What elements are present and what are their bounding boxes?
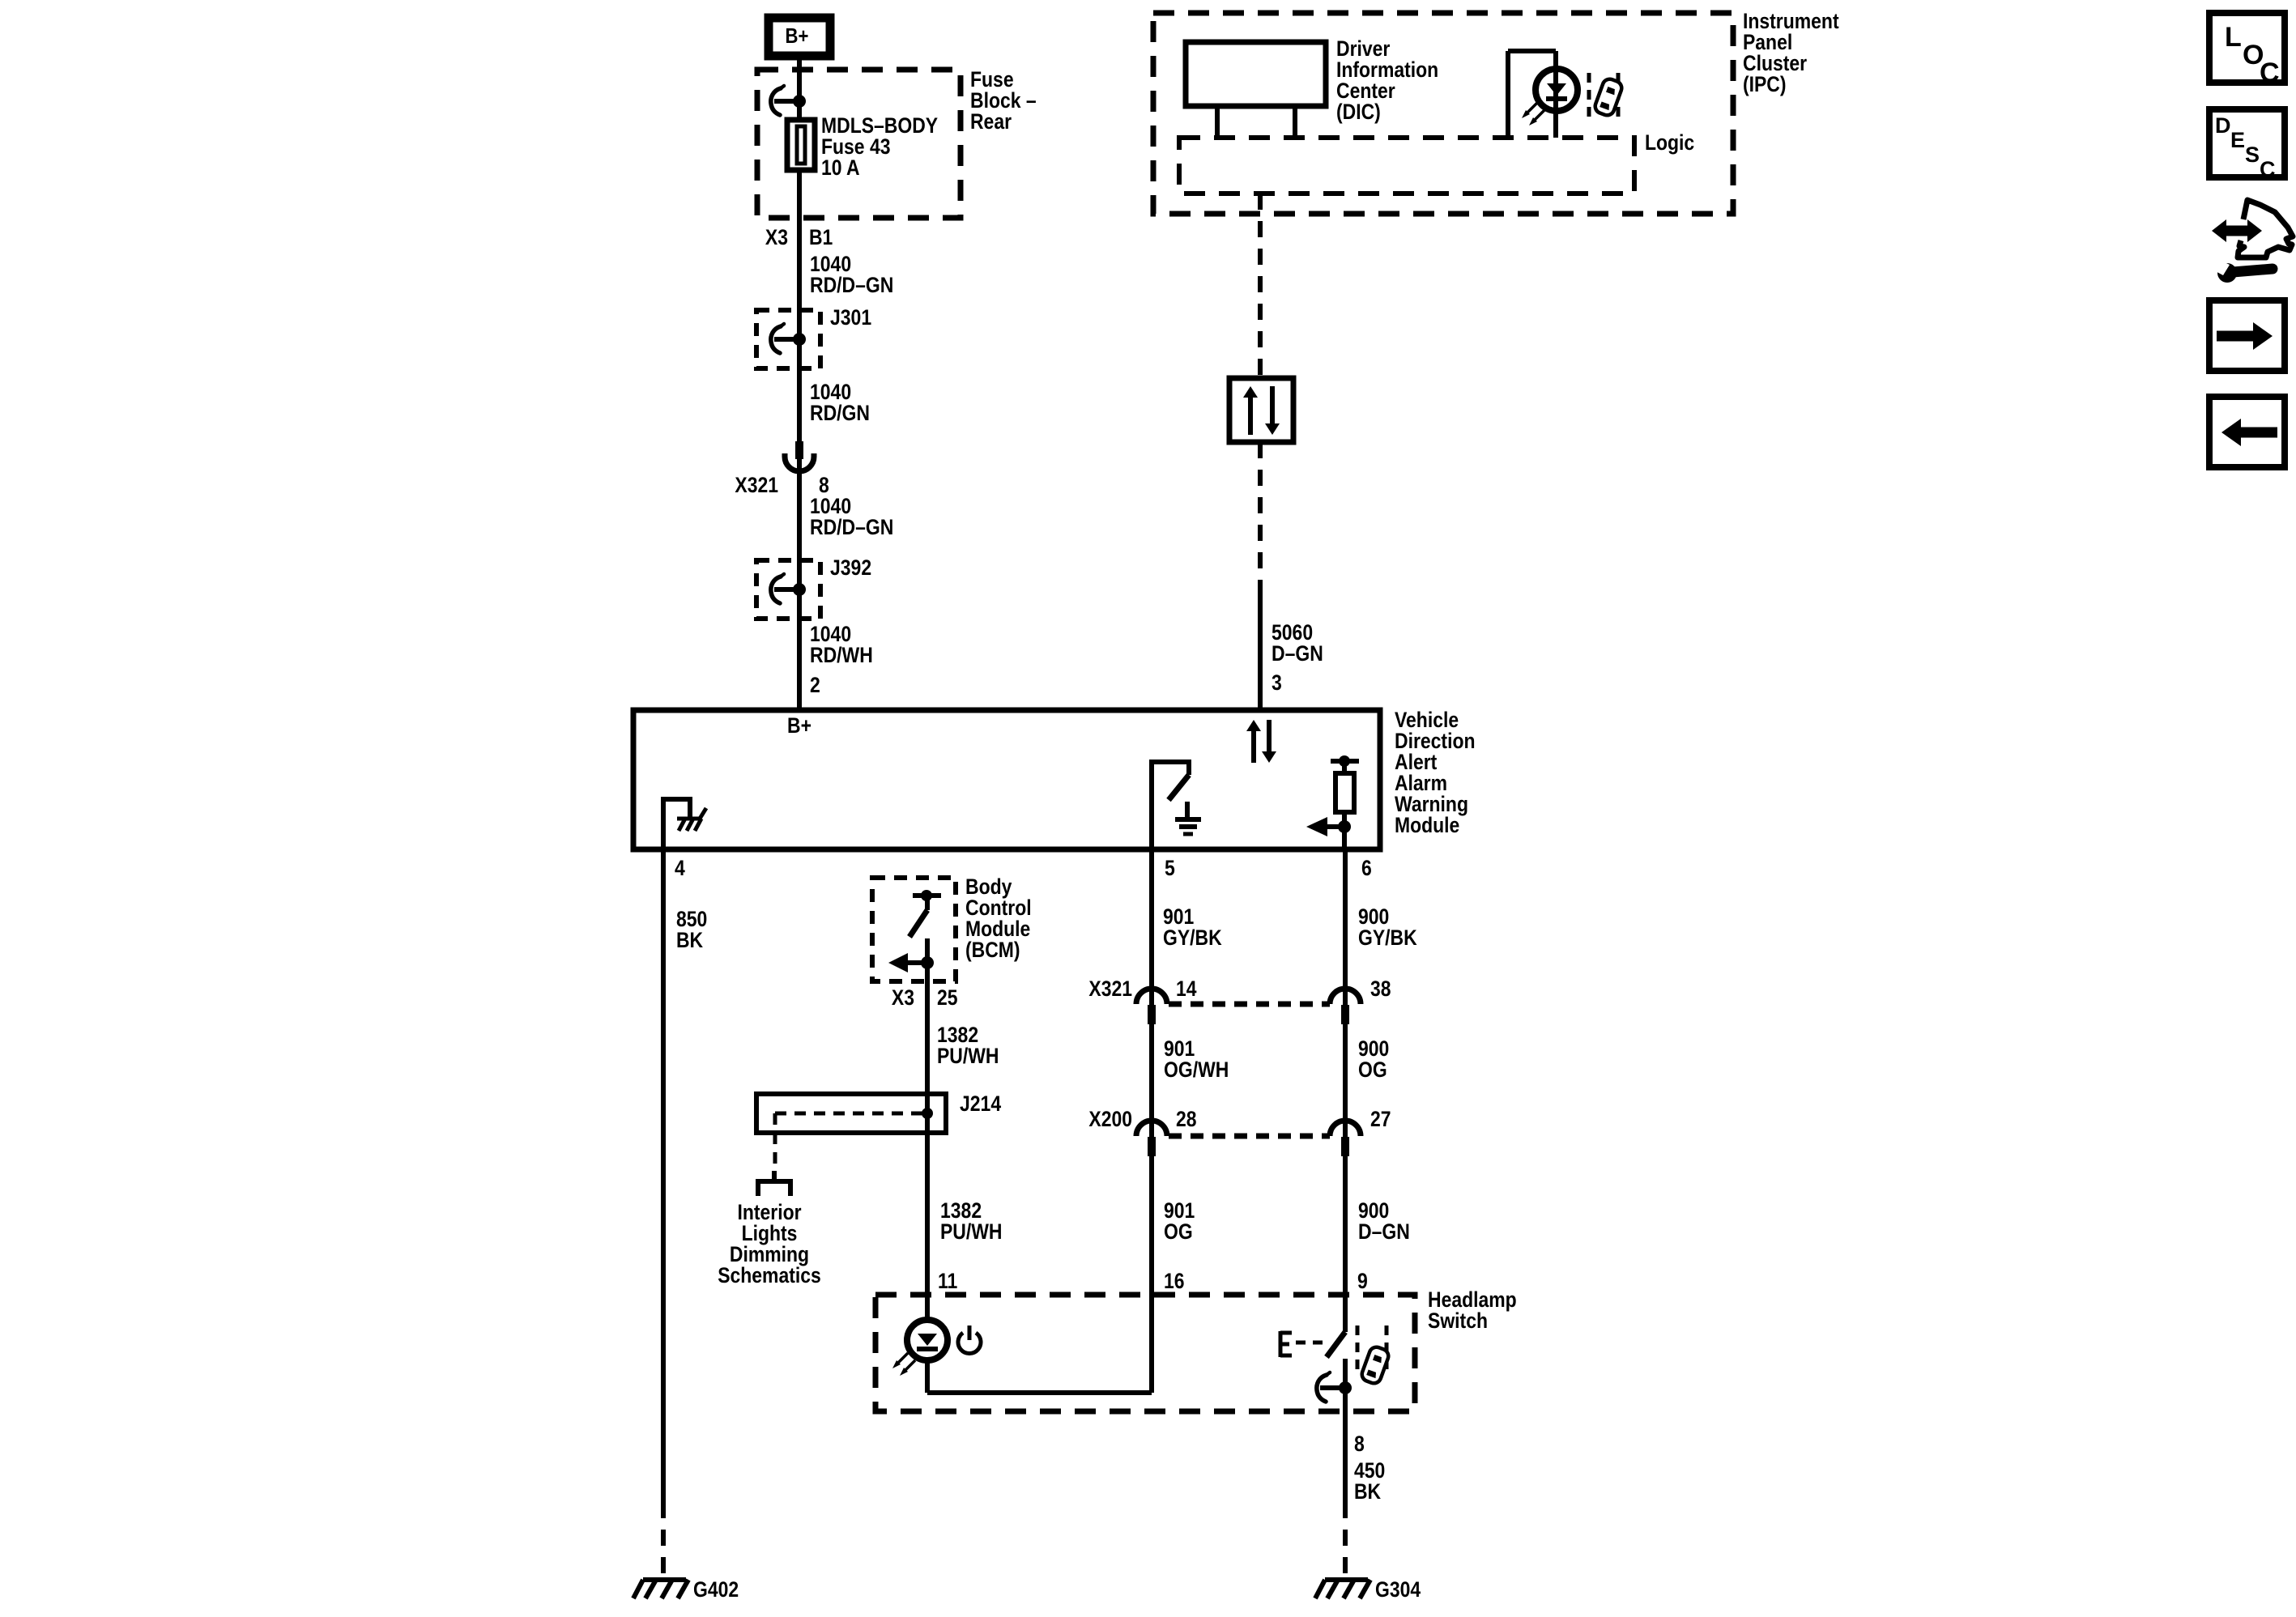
- svg-text:(DIC): (DIC): [1336, 100, 1381, 124]
- svg-text:B+: B+: [786, 23, 809, 48]
- svg-text:RD/D–GN: RD/D–GN: [810, 515, 893, 539]
- svg-text:Rear: Rear: [970, 109, 1012, 134]
- svg-text:5: 5: [1165, 856, 1175, 880]
- svg-text:B1: B1: [809, 225, 833, 249]
- svg-text:27: 27: [1370, 1107, 1391, 1131]
- svg-text:S: S: [2245, 143, 2260, 167]
- svg-text:(BCM): (BCM): [965, 938, 1020, 962]
- svg-text:6: 6: [1361, 856, 1372, 880]
- svg-text:X321: X321: [1088, 977, 1132, 1001]
- svg-text:14: 14: [1176, 977, 1197, 1001]
- svg-text:GY/BK: GY/BK: [1163, 926, 1222, 950]
- svg-text:3: 3: [1272, 670, 1282, 695]
- svg-text:Module: Module: [1395, 813, 1459, 837]
- svg-text:Switch: Switch: [1428, 1308, 1488, 1333]
- svg-text:GY/BK: GY/BK: [1358, 926, 1417, 950]
- svg-text:PU/WH: PU/WH: [937, 1044, 999, 1068]
- svg-text:RD/D–GN: RD/D–GN: [810, 273, 893, 297]
- svg-text:B+: B+: [787, 713, 811, 738]
- svg-text:2: 2: [810, 673, 820, 697]
- svg-text:E: E: [2230, 128, 2245, 152]
- svg-text:D–GN: D–GN: [1358, 1219, 1410, 1244]
- svg-text:C: C: [2260, 57, 2280, 88]
- svg-text:RD/WH: RD/WH: [810, 643, 873, 667]
- svg-text:X3: X3: [892, 985, 914, 1010]
- svg-text:X3: X3: [765, 225, 788, 249]
- svg-text:L: L: [2225, 22, 2242, 53]
- svg-text:J301: J301: [830, 305, 871, 330]
- svg-text:J392: J392: [830, 555, 871, 580]
- svg-text:BK: BK: [1354, 1479, 1382, 1504]
- svg-text:OG: OG: [1164, 1219, 1193, 1244]
- svg-text:Schematics: Schematics: [718, 1263, 821, 1287]
- svg-text:BK: BK: [676, 928, 704, 952]
- svg-text:(IPC): (IPC): [1743, 72, 1787, 96]
- svg-text:G304: G304: [1375, 1577, 1421, 1602]
- svg-text:9: 9: [1357, 1269, 1368, 1293]
- svg-text:Logic: Logic: [1645, 130, 1694, 155]
- svg-text:RD/GN: RD/GN: [810, 401, 870, 425]
- svg-text:D: D: [2215, 113, 2231, 138]
- svg-text:C: C: [2260, 157, 2276, 181]
- svg-text:10 A: 10 A: [821, 155, 860, 180]
- svg-text:PU/WH: PU/WH: [940, 1219, 1003, 1244]
- svg-text:4: 4: [675, 856, 685, 880]
- svg-text:16: 16: [1164, 1269, 1185, 1293]
- svg-text:D–GN: D–GN: [1272, 641, 1323, 666]
- svg-text:OG: OG: [1358, 1057, 1387, 1082]
- svg-text:8: 8: [1354, 1432, 1365, 1456]
- svg-text:25: 25: [937, 985, 958, 1010]
- svg-text:G402: G402: [693, 1577, 739, 1602]
- svg-text:X200: X200: [1088, 1107, 1132, 1131]
- svg-text:11: 11: [938, 1269, 957, 1293]
- svg-text:28: 28: [1176, 1107, 1197, 1131]
- svg-text:X321: X321: [735, 473, 778, 497]
- svg-text:38: 38: [1370, 977, 1391, 1001]
- svg-text:J214: J214: [960, 1091, 1001, 1116]
- svg-text:OG/WH: OG/WH: [1164, 1057, 1229, 1082]
